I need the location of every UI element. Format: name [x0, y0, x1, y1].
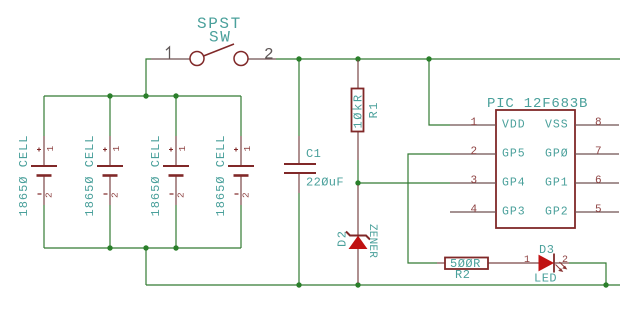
svg-text:C1: C1	[306, 147, 321, 161]
svg-text:VSS: VSS	[545, 119, 569, 132]
battery B1 plus sign	[37, 148, 41, 152]
svg-text:22ØuF: 22ØuF	[306, 176, 344, 190]
svg-text:2: 2	[562, 255, 568, 266]
battery B3 pin 2 lead	[175, 177, 177, 206]
svg-text:GP1: GP1	[545, 177, 569, 190]
svg-text:1: 1	[471, 117, 478, 129]
svg-text:1: 1	[177, 146, 188, 152]
svg-text:1865Ø CELL: 1865Ø CELL	[83, 134, 97, 216]
svg-text:8: 8	[595, 117, 602, 129]
svg-text:2: 2	[264, 46, 274, 64]
LED D3 cathode bar	[553, 254, 555, 273]
svg-text:5: 5	[595, 204, 602, 216]
battery B1 minus sign	[38, 193, 42, 195]
svg-text:D2: D2	[336, 230, 350, 247]
svg-text:PIC 12F683B: PIC 12F683B	[487, 96, 588, 112]
switch SW contact circle left	[190, 52, 204, 66]
switch pin number 1	[166, 47, 170, 59]
junction ground bus D2	[355, 282, 360, 287]
battery B4 negative plate	[234, 174, 249, 177]
battery B1 pin 2 lead	[43, 177, 45, 206]
svg-text:2: 2	[110, 192, 121, 198]
svg-text:GP5: GP5	[502, 148, 526, 161]
junction battery bus top feed	[143, 93, 148, 98]
battery B3 minus sign	[170, 193, 174, 195]
junction ground bus C1	[296, 282, 301, 287]
IC U1 pin 2 line	[450, 153, 496, 155]
svg-text:1ØkR: 1ØkR	[352, 93, 366, 128]
wire battery top bus	[44, 95, 241, 97]
svg-text:GPØ: GPØ	[545, 148, 569, 161]
junction battery bus bottom drop	[143, 245, 148, 250]
svg-text:ZENER: ZENER	[366, 224, 378, 258]
LED D3 right pin	[554, 262, 569, 264]
battery G4	[214, 134, 254, 216]
capacitor C1 pins	[298, 136, 300, 163]
wire battery B3 verticals	[175, 96, 177, 136]
battery B4 pin 1 lead	[240, 136, 242, 165]
svg-text:GP2: GP2	[545, 206, 569, 219]
battery B2 positive plate	[97, 165, 123, 167]
IC U1 pin 1 line	[450, 124, 496, 126]
wire C1 top	[298, 59, 300, 136]
wire pin3 net	[358, 182, 450, 184]
battery B2 minus sign	[104, 193, 108, 195]
svg-text:2: 2	[44, 192, 55, 198]
svg-text:VDD: VDD	[502, 119, 526, 132]
LED D3 triangle	[539, 256, 553, 271]
battery G1	[17, 134, 57, 216]
junction battery bus bottom B2	[107, 245, 112, 250]
junction battery bus bottom B3	[173, 245, 178, 250]
svg-text:7: 7	[595, 146, 602, 158]
wire drop to ground bus	[145, 248, 147, 285]
switch SW pin 1 line	[151, 58, 190, 60]
svg-text:2: 2	[471, 146, 478, 158]
battery B4 plus sign	[234, 148, 238, 152]
IC U1 pin 6 line	[575, 182, 619, 184]
junction C1 top net	[296, 56, 301, 61]
battery B2 plus sign	[103, 148, 107, 152]
battery B3 plus sign	[169, 148, 173, 152]
svg-text:SW: SW	[209, 29, 231, 47]
wire C1 bottom	[298, 193, 300, 285]
svg-text:1: 1	[45, 146, 56, 152]
zener diode D2 pins	[357, 185, 359, 235]
svg-text:D3: D3	[539, 243, 554, 257]
battery B4 pin 2 lead	[240, 177, 242, 206]
IC U1 box	[496, 110, 575, 228]
resistor R2 body	[445, 258, 488, 270]
svg-text:2: 2	[176, 192, 187, 198]
svg-text:1: 1	[242, 146, 253, 152]
svg-text:1: 1	[524, 255, 530, 266]
svg-text:GP3: GP3	[502, 206, 526, 219]
svg-text:GP4: GP4	[502, 177, 526, 190]
switch SW contact circle right	[234, 52, 248, 66]
LED D3 emission arrows	[556, 262, 567, 271]
junction R1 top net	[355, 56, 360, 61]
battery B4 minus sign	[235, 193, 239, 195]
battery B1 pin 1 lead	[43, 136, 45, 165]
IC U1 pin 3 line	[450, 182, 496, 184]
junction battery bus top B2	[107, 93, 112, 98]
svg-text:1865Ø CELL: 1865Ø CELL	[17, 134, 31, 216]
svg-text:4: 4	[471, 204, 478, 216]
battery B1 negative plate	[37, 174, 52, 177]
junction VDD feed	[426, 56, 431, 61]
battery B2 pin 2 lead	[109, 177, 111, 206]
svg-text:1865Ø CELL: 1865Ø CELL	[149, 134, 163, 216]
wire R1 bottom to node	[357, 160, 359, 183]
svg-text:3: 3	[471, 175, 478, 187]
svg-text:1: 1	[111, 146, 122, 152]
svg-text:2: 2	[241, 192, 252, 198]
wire top net from switch to right edge	[276, 58, 620, 60]
resistor R2 pins	[437, 262, 445, 264]
junction node R1/D2/GP4	[355, 180, 360, 185]
junction ground bus LED return	[603, 282, 608, 287]
battery B3 pin 1 lead	[175, 136, 177, 165]
wire bottom ground bus	[146, 284, 620, 286]
battery G3	[149, 134, 189, 216]
svg-text:LED: LED	[534, 272, 557, 286]
zener diode D2 cathode bar	[346, 232, 370, 240]
wire battery B1 verticals	[43, 96, 45, 136]
wire switch feed corner	[146, 59, 151, 96]
battery G2	[83, 134, 123, 216]
junction battery bus top B3	[173, 93, 178, 98]
svg-text:R1: R1	[367, 101, 381, 118]
switch SW lever	[204, 44, 235, 56]
wire battery bottom bus	[44, 247, 241, 249]
svg-text:6: 6	[595, 175, 602, 187]
battery B3 positive plate	[163, 165, 189, 167]
switch SW pin 2 line	[248, 58, 276, 60]
wire LED to ground	[569, 263, 606, 285]
resistor R1 pins	[357, 60, 359, 88]
wire battery B4 verticals	[240, 96, 242, 136]
IC U1 pin 5 line	[575, 211, 619, 213]
battery B2 negative plate	[103, 174, 118, 177]
IC U1 pin 4 line	[450, 211, 496, 213]
IC U1 pin 8 line	[575, 124, 619, 126]
wire battery B2 verticals	[109, 96, 111, 136]
zener diode D2 triangle	[350, 237, 367, 249]
capacitor C1 plates	[284, 163, 316, 165]
wire pin1 net	[429, 59, 450, 125]
wire pin2 net	[408, 154, 450, 263]
battery B3 negative plate	[169, 174, 184, 177]
svg-text:R2: R2	[455, 268, 470, 282]
battery B2 pin 1 lead	[109, 136, 111, 165]
battery B4 positive plate	[228, 165, 254, 167]
battery B1 positive plate	[31, 165, 57, 167]
resistor R1 body	[352, 89, 364, 132]
IC U1 pin 7 line	[575, 153, 619, 155]
svg-text:1865Ø CELL: 1865Ø CELL	[214, 134, 228, 216]
